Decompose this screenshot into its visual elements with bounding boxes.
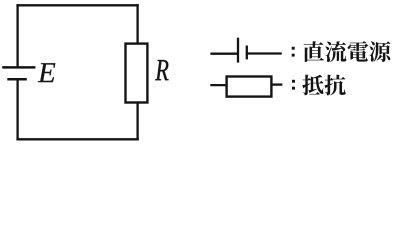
legend resistor symbol: box body	[227, 77, 272, 97]
wire left lower (battery - lead)	[16, 80, 18, 140]
legend battery symbol: short plate	[246, 46, 248, 60]
wire top (node between E+ and R top)	[16, 4, 138, 6]
wire right lower (R bottom lead)	[136, 103, 138, 141]
label 流 (of 直流電源)	[325, 41, 346, 62]
legend resistor symbol: left lead wire	[210, 84, 227, 86]
label 源 (of 直流電源)	[369, 41, 390, 62]
battery E (DC source, long + plate over short - plate)	[2, 67, 35, 79]
label 電 (of 直流電源)	[348, 41, 369, 62]
label 直 (of 直流電源 DC power source)	[304, 41, 324, 62]
label R (resistance, serif italic)	[155, 60, 168, 80]
label 抵 (of 抵抗 resistance)	[302, 75, 323, 96]
colon before 直流電源	[292, 47, 295, 57]
wire bottom (node between E- and R bottom)	[16, 138, 138, 140]
wire right upper (R top lead)	[136, 4, 138, 44]
label 抗 (of 抵抗)	[324, 75, 345, 96]
legend battery symbol: right lead wire	[247, 52, 282, 54]
colon before 抵抗	[292, 80, 295, 90]
legend battery symbol: long plate	[237, 38, 239, 63]
resistor R (box body)	[126, 44, 148, 103]
legend resistor symbol: right lead wire	[271, 83, 282, 85]
label E (source voltage, serif italic)	[38, 63, 56, 82]
wire left upper (battery + lead)	[16, 4, 18, 66]
legend battery symbol: left lead wire	[210, 53, 237, 55]
